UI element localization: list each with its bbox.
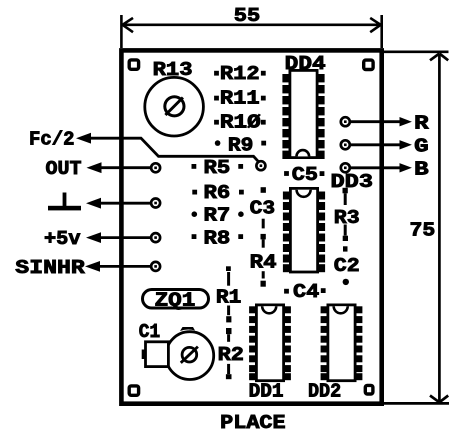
corner hole top-right	[364, 60, 373, 69]
svg-text:R11: R11	[220, 88, 260, 110]
wire ground	[96, 202, 152, 205]
svg-text:PLACE: PLACE	[220, 412, 285, 434]
svg-text:R4: R4	[250, 252, 277, 274]
svg-text:SINHR: SINHR	[15, 257, 85, 279]
arrow G	[400, 140, 412, 149]
pad ground	[151, 199, 160, 208]
capacitor C5	[284, 164, 324, 186]
wire B	[351, 166, 404, 169]
wire R1/R2 dashed	[226, 266, 232, 379]
capacitor C1	[142, 327, 214, 380]
svg-text:R8: R8	[204, 228, 231, 250]
svg-text:DD1: DD1	[249, 381, 284, 403]
resistor R9	[215, 135, 266, 157]
wire OUT	[96, 166, 152, 169]
resistor R5	[192, 157, 244, 179]
svg-text:R1: R1	[216, 286, 241, 308]
board outline	[121, 50, 381, 403]
IC DD2	[321, 305, 363, 381]
IC DD4	[282, 70, 324, 159]
svg-text:R12: R12	[220, 63, 260, 85]
wire R3/C2 dashed	[343, 188, 349, 285]
svg-text:R1Ø: R1Ø	[220, 112, 261, 134]
svg-text:C1: C1	[139, 321, 160, 343]
arrow Fc/2	[76, 133, 91, 144]
svg-text:DD2: DD2	[308, 381, 341, 403]
pad B	[341, 163, 350, 172]
pad G	[341, 140, 350, 149]
svg-text:R9: R9	[228, 135, 254, 157]
svg-text:R: R	[414, 112, 429, 134]
corner hole bottom-right	[365, 385, 373, 394]
svg-text:C2: C2	[334, 255, 360, 277]
pad R	[341, 117, 350, 126]
wire R	[351, 120, 404, 123]
svg-text:+5v: +5v	[44, 228, 81, 250]
resistor R8	[192, 228, 244, 250]
wire G	[351, 143, 404, 146]
arrow ground	[86, 198, 101, 209]
dimension 75 line	[384, 52, 449, 404]
svg-text:R6: R6	[204, 182, 231, 204]
IC DD3	[283, 188, 325, 272]
resistor R12	[214, 63, 266, 85]
capacitor C4	[284, 281, 325, 303]
svg-text:C3: C3	[250, 197, 276, 219]
svg-text:C5: C5	[292, 164, 318, 186]
arrow +5v	[86, 232, 101, 243]
svg-text:R5: R5	[204, 157, 231, 179]
wire SINHR	[95, 265, 152, 268]
resistor R7	[192, 204, 244, 226]
svg-text:B: B	[414, 158, 429, 180]
pad SINHR	[151, 262, 160, 271]
svg-text:OUT: OUT	[46, 158, 82, 180]
trimmer R13	[145, 77, 204, 136]
wire C3/R4 dashed	[261, 187, 266, 287]
ground symbol	[48, 193, 81, 211]
dimension 55 line	[121, 15, 381, 48]
IC DD1	[249, 305, 291, 381]
svg-text:Fc/2: Fc/2	[29, 129, 75, 151]
resistor R10	[214, 112, 266, 134]
wire Fc/2 trace	[86, 138, 260, 163]
svg-text:C4: C4	[293, 281, 319, 303]
resistor R6	[192, 182, 244, 204]
svg-text:DD3: DD3	[331, 171, 374, 193]
arrow B	[400, 163, 412, 172]
arrow OUT	[87, 162, 102, 173]
resistor R11	[214, 88, 266, 110]
arrow R	[400, 117, 412, 126]
pad +5v	[151, 233, 160, 242]
svg-text:75: 75	[410, 219, 436, 241]
pad OUT	[151, 163, 160, 172]
crystal ZQ1	[143, 290, 209, 312]
svg-text:R2: R2	[218, 344, 244, 366]
wire +5v	[96, 236, 152, 239]
corner hole top-left	[129, 60, 138, 69]
corner hole bottom-left	[129, 386, 138, 395]
svg-text:R3: R3	[334, 207, 360, 229]
pad Fc/2	[256, 161, 265, 170]
svg-text:ZQ1: ZQ1	[155, 290, 196, 312]
svg-text:G: G	[414, 135, 429, 157]
arrow SINHR	[85, 261, 100, 272]
svg-text:R7: R7	[204, 204, 231, 226]
